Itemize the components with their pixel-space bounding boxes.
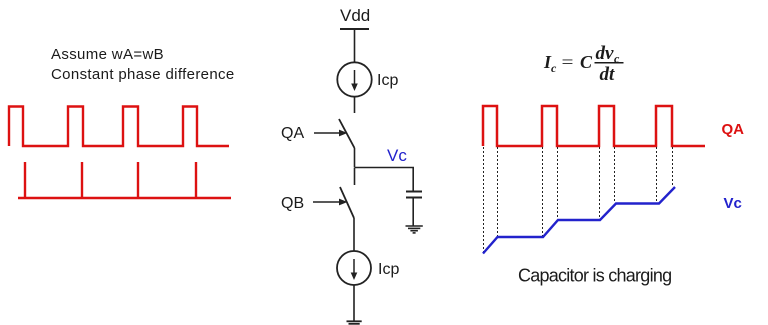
svg-text:Assume wA=wB: Assume wA=wB: [51, 46, 164, 63]
equation Ic = C dvc/dt: [543, 43, 624, 85]
wire node to switch QB: [354, 168, 356, 186]
waveform QB phase ticks (left): [18, 162, 231, 198]
ground (bottom): [347, 321, 362, 324]
svg-text:Icp: Icp: [377, 72, 398, 89]
waveform QA (left square wave): [9, 107, 229, 147]
svg-text:dt: dt: [600, 64, 616, 85]
wire node Vc down to capacitor: [412, 168, 414, 193]
capacitor C: [406, 192, 422, 198]
guide line 4 (fall 2): [557, 147, 559, 219]
switch QB blade: [340, 187, 354, 218]
svg-text:C: C: [580, 52, 593, 72]
svg-text:QA: QA: [722, 121, 745, 138]
guide line 8 (fall 4): [672, 147, 674, 187]
Vdd power rail: [340, 28, 369, 30]
wire switch QB to current source: [353, 218, 355, 251]
wire current source to switch QA: [354, 97, 356, 114]
tick 1: [24, 162, 26, 198]
waveform Vc ramp (right, blue): [483, 187, 675, 254]
svg-text:dv: dv: [596, 43, 615, 64]
node Vc horizontal wire: [355, 167, 415, 169]
guide line 7 (rise 4): [656, 147, 658, 204]
tick 3: [137, 162, 139, 198]
svg-text:Icp: Icp: [378, 261, 399, 278]
current source Icp (bottom): [337, 251, 371, 285]
svg-text:Vc: Vc: [724, 195, 742, 212]
current source Icp (top): [337, 62, 371, 96]
wire Vdd rail to current source: [354, 29, 356, 63]
svg-text:Capacitor is charging: Capacitor is charging: [518, 266, 671, 286]
svg-text:QA: QA: [281, 125, 304, 142]
switch QA blade: [339, 119, 355, 148]
guide line 5 (rise 3): [599, 147, 601, 220]
guide line 6 (fall 3): [614, 147, 616, 203]
tick 4: [195, 162, 197, 198]
waveform QA (right square wave): [483, 106, 705, 146]
svg-text:c: c: [551, 61, 557, 75]
svg-text:Vdd: Vdd: [340, 6, 370, 25]
baseline wire: [18, 197, 231, 199]
guide line 2 (fall 1): [497, 147, 499, 237]
wire switch QA to node Vc: [354, 148, 356, 167]
ground (capacitor): [406, 226, 423, 233]
svg-text:QB: QB: [281, 195, 304, 212]
svg-text:Vc: Vc: [387, 146, 407, 165]
guide line 3 (rise 2): [542, 147, 544, 237]
svg-text:Constant phase difference: Constant phase difference: [51, 66, 235, 83]
wire capacitor to ground: [412, 198, 414, 227]
svg-text:=: =: [562, 53, 574, 72]
control arrow QB: [313, 199, 348, 206]
tick 2: [81, 162, 83, 198]
guide line 1 (rise 1): [483, 147, 485, 252]
control arrow QA: [314, 130, 348, 137]
wire current source to ground: [353, 285, 355, 321]
